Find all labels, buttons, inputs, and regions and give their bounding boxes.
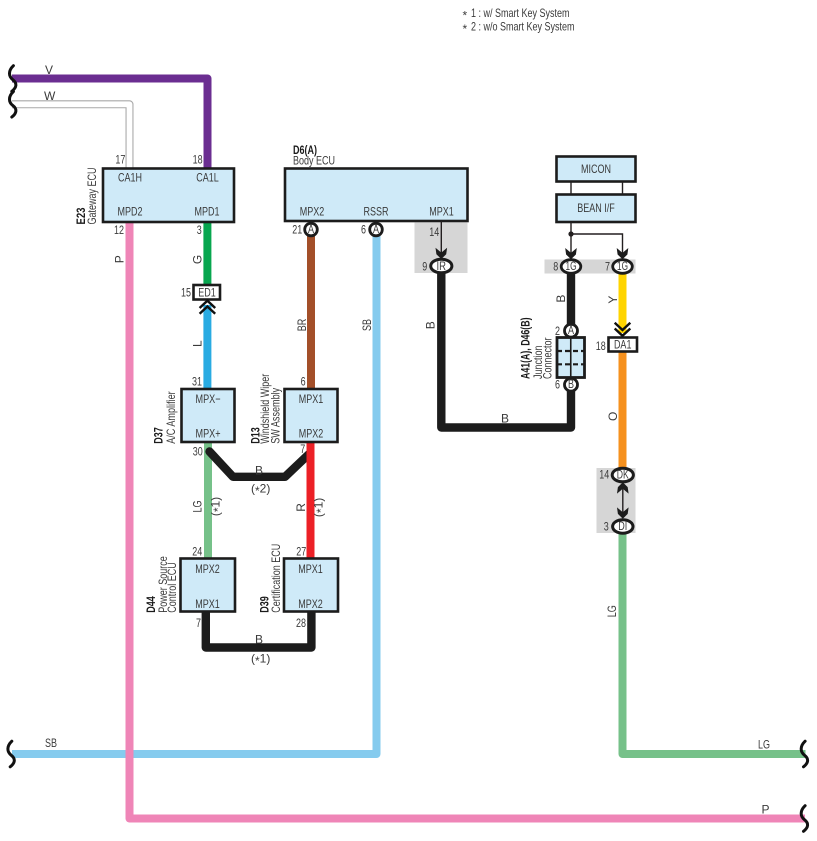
wire BR (brown) from D6(A) pin 21 to D13 pin 6 — [307, 236, 315, 389]
chevron arrows below ED1 pointing up — [200, 301, 216, 314]
svg-text:A/C Amplifier: A/C Amplifier — [164, 391, 178, 444]
svg-text:R: R — [294, 503, 308, 512]
wires MICON to BEAN I/F — [571, 182, 623, 195]
svg-text:30: 30 — [193, 445, 203, 459]
svg-text:6: 6 — [555, 378, 560, 392]
svg-text:MPX1: MPX1 — [299, 392, 324, 406]
svg-text:MPX1: MPX1 — [429, 205, 454, 219]
svg-text:14: 14 — [599, 468, 609, 482]
connector circle A pin 6 — [370, 222, 383, 236]
connector circle A pin 21 — [305, 222, 318, 236]
svg-text:3: 3 — [197, 223, 202, 237]
svg-text:MPD2: MPD2 — [118, 205, 143, 219]
svg-text:B: B — [554, 295, 568, 303]
connector D44 Power Source Control ECU box — [181, 559, 236, 612]
svg-text:P: P — [762, 803, 770, 817]
connector circle A junction — [565, 323, 578, 337]
svg-text:BEAN I/F: BEAN I/F — [577, 201, 615, 215]
break symbol on wire V — [9, 66, 15, 92]
svg-text:LG: LG — [191, 501, 205, 513]
svg-text:CA1H: CA1H — [118, 170, 142, 184]
svg-text:18: 18 — [193, 153, 203, 167]
wire LG (light green) from D37 pin 30 to D44 pin 24 — [204, 442, 212, 559]
svg-text:3: 3 — [604, 519, 609, 533]
wire Y (yellow) from 1G pin 7 to DA1 — [619, 272, 627, 333]
svg-text:V: V — [45, 63, 53, 77]
svg-text:A: A — [568, 323, 574, 337]
svg-text:Control ECU: Control ECU — [165, 562, 179, 613]
svg-text:SB: SB — [45, 736, 57, 750]
connector D6(A) Body ECU box — [285, 169, 468, 222]
svg-text:ED1: ED1 — [198, 285, 216, 299]
svg-text:27: 27 — [296, 545, 306, 559]
svg-text:P: P — [113, 255, 127, 263]
svg-text:31: 31 — [192, 375, 202, 389]
svg-text:MPX2: MPX2 — [298, 597, 323, 611]
svg-text:15: 15 — [181, 286, 191, 300]
wire R (red) from D13 pin 7 to D39 pin 27 — [307, 442, 315, 559]
gray highlight box at DK/DI connectors — [597, 468, 636, 533]
connector ED1 box — [194, 285, 221, 300]
svg-text:B: B — [424, 321, 438, 329]
svg-text:CA1L: CA1L — [196, 170, 219, 184]
svg-text:Connector: Connector — [540, 338, 554, 380]
note legend w/ Smart Key System — [463, 6, 575, 36]
svg-text:6: 6 — [301, 375, 306, 389]
svg-text:12: 12 — [114, 223, 124, 237]
double arrow between DK and DI — [617, 482, 629, 518]
svg-text:1 : w/ Smart Key System: 1 : w/ Smart Key System — [471, 6, 570, 20]
wire G (green) from MPD1 pin 3 to ED1 — [203, 222, 211, 286]
arrow into 1G pin 8 — [565, 248, 577, 259]
svg-text:(*1): (*1) — [251, 652, 270, 669]
svg-text:MPX1: MPX1 — [195, 597, 220, 611]
svg-text:*: * — [463, 22, 468, 36]
svg-text:21: 21 — [292, 222, 302, 236]
svg-text:LG: LG — [758, 738, 770, 752]
wire P (pink) from MPD2 pin 12 to right edge — [130, 222, 806, 819]
wire LG (light green) from DI to right edge — [623, 532, 806, 754]
wire O (orange) from DA1 to DK — [619, 352, 627, 471]
svg-text:MPX2: MPX2 — [300, 205, 325, 219]
svg-text:14: 14 — [429, 225, 439, 239]
wire BEAN I/F down with branch — [571, 222, 623, 258]
connector oval IR — [431, 259, 452, 273]
arrow into 1G pin 7 — [617, 248, 629, 259]
svg-text:MPX1: MPX1 — [298, 562, 323, 576]
svg-text:IR: IR — [437, 259, 447, 273]
connector circle B junction — [565, 377, 578, 391]
BEAN I/F box — [557, 195, 636, 223]
svg-text:Y: Y — [606, 296, 620, 304]
connector DA1 box — [609, 338, 638, 352]
wire V (violet) — [12, 79, 208, 169]
svg-text:MPD1: MPD1 — [195, 205, 220, 219]
svg-text:RSSR: RSSR — [364, 205, 389, 219]
svg-text:DI: DI — [618, 519, 627, 533]
chevron arrows above DA1 pointing down — [615, 323, 631, 336]
svg-text:(*1): (*1) — [209, 497, 226, 516]
svg-text:B: B — [568, 377, 574, 391]
connector E23 Gateway ECU box — [103, 169, 234, 223]
svg-text:2: 2 — [555, 324, 560, 338]
svg-text:(*2): (*2) — [251, 482, 270, 499]
svg-text:Certification ECU: Certification ECU — [269, 544, 283, 613]
svg-text:18: 18 — [596, 339, 606, 353]
svg-text:Body ECU: Body ECU — [293, 154, 335, 168]
svg-text:28: 28 — [296, 616, 306, 630]
svg-text:1G: 1G — [566, 259, 577, 273]
svg-text:W: W — [44, 89, 56, 103]
svg-text:9: 9 — [422, 259, 427, 273]
svg-text:L: L — [191, 340, 205, 347]
break symbol on wire LG — [801, 741, 807, 767]
connector D37 A/C Amplifier box — [182, 389, 235, 442]
junction connector A41(A)/D46(B) box — [557, 338, 585, 378]
wire W (white) — [12, 104, 130, 168]
svg-text:DK: DK — [617, 468, 629, 482]
svg-text:MPX+: MPX+ — [196, 427, 221, 441]
svg-text:8: 8 — [553, 260, 558, 274]
gray highlight under D6(A) MPX1 pin 14 — [415, 223, 468, 274]
wire SB (sky blue) from RSSR pin 6 to left edge — [12, 236, 377, 754]
svg-text:1G: 1G — [617, 259, 628, 273]
connector oval DK — [612, 468, 633, 482]
svg-text:B: B — [255, 633, 263, 647]
svg-text:A: A — [308, 222, 314, 236]
wire L (blue) from ED1 to D37 pin 31 — [203, 305, 211, 389]
svg-text:MPX−: MPX− — [196, 392, 221, 406]
svg-text:7: 7 — [300, 442, 305, 456]
svg-text:*: * — [463, 8, 468, 22]
break symbol on wire SB — [8, 741, 14, 767]
connector oval DI — [613, 519, 633, 533]
svg-text:DA1: DA1 — [614, 338, 632, 352]
arrow into IR — [436, 248, 448, 259]
connector D13 Windshield Wiper SW Assembly box — [285, 389, 338, 442]
svg-text:B: B — [501, 412, 509, 426]
connector oval 1G pin 7 — [613, 259, 633, 273]
svg-text:7: 7 — [196, 616, 201, 630]
gray highlight band at 1G connectors — [545, 260, 636, 274]
svg-text:17: 17 — [115, 153, 125, 167]
svg-text:2 : w/o Smart Key System: 2 : w/o Smart Key System — [471, 19, 575, 33]
svg-text:Gateway ECU: Gateway ECU — [85, 168, 99, 225]
svg-text:SW Assembly: SW Assembly — [269, 388, 283, 444]
svg-text:LG: LG — [605, 605, 619, 617]
svg-text:MICON: MICON — [581, 162, 611, 176]
svg-text:MPX2: MPX2 — [195, 562, 220, 576]
svg-text:MPX2: MPX2 — [299, 427, 324, 441]
wire B (black) from 1G pin 8 to junction connector A — [567, 272, 575, 326]
svg-text:O: O — [606, 412, 620, 421]
wire B (black) from IR connector to junction connector B — [441, 271, 571, 428]
MICON box — [557, 157, 636, 182]
junction dot — [568, 231, 573, 236]
connector D39 Certification ECU box — [284, 559, 338, 612]
svg-text:BR: BR — [295, 319, 309, 332]
svg-text:SB: SB — [360, 319, 374, 331]
wire pin 14 to IR — [440, 221, 442, 258]
svg-text:24: 24 — [192, 545, 202, 559]
connector oval 1G pin 8 — [561, 259, 581, 273]
wire B (black) D37 pin 30 to D13 pin 7 — [210, 452, 310, 477]
svg-text:B: B — [255, 464, 263, 478]
break symbol on wire P — [801, 806, 807, 832]
break symbol on wire W — [9, 92, 15, 118]
svg-text:A: A — [373, 222, 379, 236]
svg-text:6: 6 — [361, 222, 366, 236]
svg-text:G: G — [191, 255, 205, 264]
svg-text:(*1): (*1) — [312, 498, 329, 517]
wire B (black) D44 pin 7 to D39 pin 28 — [206, 612, 312, 648]
svg-text:7: 7 — [605, 260, 610, 274]
